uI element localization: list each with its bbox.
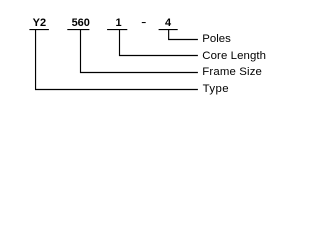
svg-text:560: 560 [72, 17, 90, 29]
svg-text:Type: Type [203, 83, 230, 95]
wire from 4 down and right to Poles [169, 30, 198, 40]
wire from 560 down and right to Frame Size [81, 30, 198, 73]
underline under Y2 [29, 29, 49, 31]
hyphen separator [142, 22, 146, 24]
svg-text:4: 4 [165, 17, 172, 29]
wire from Y2 down and right to Type [36, 30, 198, 90]
underline under 1 [107, 29, 127, 31]
wire from 1 down and right to Core Length [120, 30, 198, 56]
svg-text:Core Length: Core Length [202, 50, 266, 62]
svg-text:Frame Size: Frame Size [202, 66, 262, 78]
underline under 560 [67, 29, 89, 31]
svg-text:Y2: Y2 [33, 17, 46, 29]
svg-text:1: 1 [116, 17, 122, 29]
underline under 4 [159, 29, 178, 31]
svg-text:Poles: Poles [202, 33, 231, 45]
